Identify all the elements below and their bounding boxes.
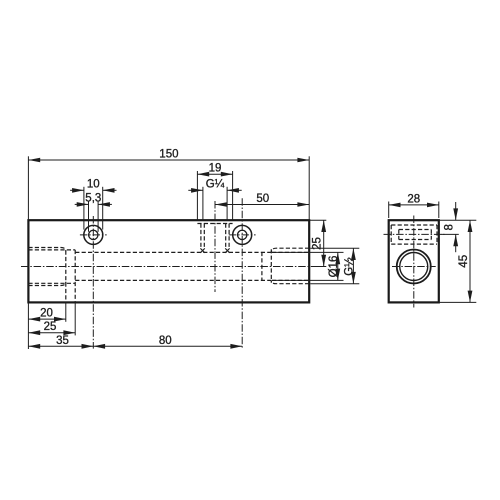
dimension 5,3 bbox=[75, 203, 89, 205]
svg-text:45: 45 bbox=[458, 255, 470, 268]
dimension 28 bbox=[389, 204, 439, 206]
svg-text:20: 20 bbox=[40, 308, 53, 320]
G1/4 counterbore bottom line bbox=[197, 223, 232, 225]
left port G1/2 thread bottom line bbox=[28, 282, 65, 286]
right port bore bottom hidden line bbox=[272, 279, 309, 281]
block outline front view bbox=[28, 220, 309, 302]
dimension 150 bbox=[28, 159, 309, 161]
dimension 25 bottom extension line bbox=[74, 302, 76, 335]
right port bore top hidden line bbox=[272, 251, 309, 253]
dimension 20 bbox=[28, 318, 65, 320]
block outline side view bbox=[389, 220, 439, 302]
right port core top line solid bbox=[272, 251, 344, 253]
screw hole 2 bore circle bbox=[238, 230, 247, 239]
dimension 35 bbox=[28, 345, 93, 347]
dimension 28 extension lines bbox=[388, 202, 390, 219]
svg-text:25: 25 bbox=[44, 321, 57, 333]
side view vertical center line bbox=[413, 216, 415, 308]
dimension G1/4 extension lines bbox=[202, 187, 204, 220]
screw hole 1 horizontal center line bbox=[80, 234, 107, 236]
dimension 19 extension lines bbox=[196, 171, 198, 220]
screw hole 2 vertical center line bbox=[241, 198, 243, 348]
dimension 10 bbox=[70, 189, 84, 191]
dimension 19 bbox=[197, 173, 232, 175]
G1/4 passage left hidden lines bbox=[200, 224, 202, 249]
side view hidden counterbore rectangle bbox=[391, 224, 437, 226]
side view port circle outer bbox=[397, 250, 431, 284]
G1/4 passage left drill point bbox=[200, 248, 204, 252]
right port core bottom line solid bbox=[272, 279, 344, 281]
side view port circle inner bbox=[400, 253, 428, 281]
svg-text:35: 35 bbox=[56, 335, 69, 347]
svg-text:8: 8 bbox=[444, 224, 456, 230]
svg-text:G¼: G¼ bbox=[206, 179, 225, 191]
port axis center line bbox=[21, 266, 315, 268]
dimension 8 extension line bbox=[441, 233, 459, 235]
left port core top line bbox=[28, 249, 75, 251]
screw hole 1 counterbore circle bbox=[84, 225, 103, 244]
G1/4 passage right drill point bbox=[225, 248, 229, 252]
svg-text:10: 10 bbox=[87, 179, 100, 191]
dimension 25 bottom bbox=[28, 332, 75, 334]
dimension 10 extension lines bbox=[83, 187, 85, 230]
side view bottom edge extension line bbox=[439, 301, 477, 303]
hidden channel bore bottom line bbox=[75, 279, 272, 281]
svg-text:50: 50 bbox=[256, 193, 269, 205]
left port core bottom line bbox=[28, 282, 75, 284]
dimension G1/4 bbox=[188, 189, 203, 191]
dimension 150 extension lines bbox=[27, 156, 29, 220]
side view port horizontal center line bbox=[392, 266, 436, 268]
G1/4 vertical center line bbox=[214, 201, 216, 292]
dimension 80 bbox=[93, 345, 242, 347]
screw hole 1 bore circle bbox=[89, 230, 98, 239]
svg-text:5,3: 5,3 bbox=[85, 193, 101, 205]
dimension 50 bbox=[215, 204, 309, 206]
G1/4 passage right hidden lines bbox=[225, 224, 227, 249]
dimension G1/2 extension lines bbox=[310, 247, 359, 249]
left port core end line bbox=[74, 250, 76, 303]
dimension 8 bbox=[455, 202, 457, 220]
dimension G1/2 bbox=[352, 248, 354, 284]
dimension 45 bbox=[469, 220, 471, 302]
left port G1/2 thread top line bbox=[28, 248, 65, 252]
right port G1/2 thread bottom line bbox=[271, 280, 309, 283]
left edge bottom extension line bbox=[27, 302, 29, 349]
svg-text:80: 80 bbox=[159, 335, 172, 347]
port axis right extension line bbox=[311, 266, 326, 268]
dimension 25 vertical bbox=[323, 220, 325, 266]
svg-text:28: 28 bbox=[407, 193, 420, 205]
top edge right extension line bbox=[309, 219, 326, 221]
screw hole 2 counterbore circle bbox=[233, 225, 252, 244]
dimension 20 extension line bbox=[65, 302, 67, 321]
screw hole 2 horizontal center line bbox=[229, 234, 256, 236]
side view top edge extension line bbox=[439, 219, 477, 221]
screw hole 1 vertical center line bbox=[92, 216, 94, 349]
svg-text:G½: G½ bbox=[344, 257, 356, 276]
right port G1/2 thread top line bbox=[271, 248, 309, 252]
left port thread end line bbox=[65, 251, 67, 303]
dimension 5,3 extension lines bbox=[88, 201, 90, 232]
svg-text:19: 19 bbox=[209, 162, 222, 174]
svg-text:150: 150 bbox=[159, 148, 178, 160]
dimension diameter 16 bbox=[337, 252, 339, 280]
hidden channel bore top line bbox=[75, 251, 272, 253]
side view hidden bore lines bbox=[399, 229, 432, 231]
right port core end line bbox=[261, 252, 263, 281]
svg-text:Ø16: Ø16 bbox=[328, 256, 340, 278]
side view screw hole axis center line bbox=[384, 233, 445, 235]
right port thread end line bbox=[270, 249, 272, 283]
